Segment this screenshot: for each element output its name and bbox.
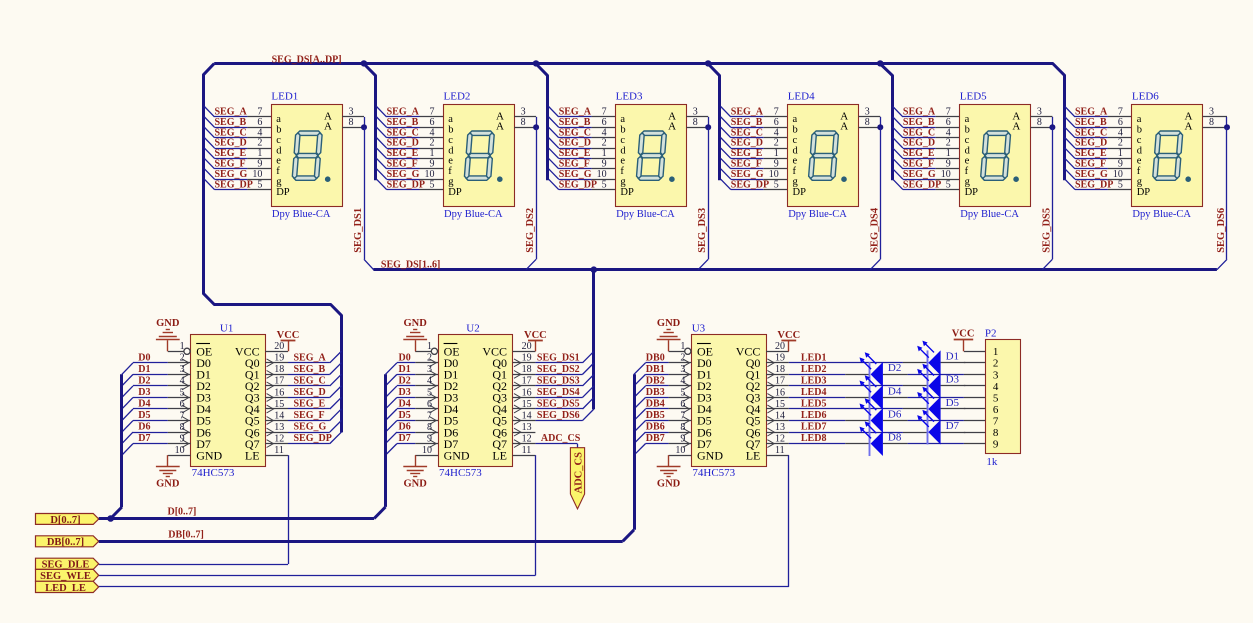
svg-text:10: 10 (597, 169, 607, 180)
svg-text:SEG_DP: SEG_DP (559, 179, 597, 190)
svg-text:LED6: LED6 (1132, 90, 1159, 102)
svg-text:DP: DP (965, 187, 979, 198)
svg-text:LED1: LED1 (271, 90, 298, 102)
svg-text:d: d (448, 145, 454, 156)
svg-text:SEG_F: SEG_F (387, 159, 418, 170)
svg-text:12: 12 (522, 433, 532, 444)
svg-text:GND: GND (657, 479, 681, 490)
svg-text:g: g (1137, 177, 1143, 188)
svg-text:6: 6 (680, 399, 685, 410)
svg-text:5: 5 (680, 387, 685, 398)
svg-text:A: A (1184, 121, 1192, 133)
svg-text:3: 3 (427, 364, 432, 375)
svg-text:SEG_E: SEG_E (903, 148, 935, 159)
svg-text:SEG_DP: SEG_DP (1075, 179, 1113, 190)
svg-text:DP: DP (620, 187, 634, 198)
svg-text:SEG_B: SEG_B (559, 117, 591, 128)
svg-text:SEG_DS5: SEG_DS5 (537, 399, 580, 410)
svg-text:LED4: LED4 (788, 90, 815, 102)
svg-text:LED3: LED3 (801, 376, 827, 387)
svg-text:Dpy Blue-CA: Dpy Blue-CA (788, 209, 847, 220)
svg-text:Dpy Blue-CA: Dpy Blue-CA (1132, 209, 1191, 220)
svg-text:17: 17 (522, 376, 532, 387)
svg-text:D2: D2 (138, 375, 150, 386)
svg-text:4: 4 (180, 376, 185, 387)
svg-text:8: 8 (1037, 117, 1042, 128)
svg-text:4: 4 (993, 381, 999, 393)
svg-text:Dpy Blue-CA: Dpy Blue-CA (960, 209, 1019, 220)
svg-text:11: 11 (522, 445, 532, 456)
svg-text:5: 5 (602, 179, 607, 190)
svg-text:b: b (276, 125, 281, 136)
svg-text:9: 9 (427, 433, 432, 444)
svg-text:DB7: DB7 (646, 433, 665, 444)
svg-text:D5: D5 (946, 397, 960, 409)
svg-text:9: 9 (774, 159, 779, 170)
svg-text:DB6: DB6 (646, 422, 665, 433)
svg-text:GND: GND (156, 479, 180, 490)
svg-text:SEG_F: SEG_F (215, 159, 246, 170)
svg-text:g: g (448, 177, 454, 188)
svg-text:14: 14 (775, 410, 785, 421)
svg-text:LE: LE (746, 448, 761, 462)
svg-text:5: 5 (427, 387, 432, 398)
svg-text:SEG_DS1: SEG_DS1 (537, 352, 580, 363)
svg-text:18: 18 (775, 364, 785, 375)
svg-text:14: 14 (274, 410, 284, 421)
svg-text:D1: D1 (946, 351, 959, 363)
svg-text:5: 5 (430, 179, 435, 190)
svg-text:6: 6 (1118, 117, 1123, 128)
svg-text:e: e (276, 156, 281, 167)
svg-text:1: 1 (1118, 148, 1123, 159)
svg-text:15: 15 (775, 399, 785, 410)
svg-text:2: 2 (993, 358, 999, 370)
svg-text:LED4: LED4 (801, 387, 827, 398)
svg-text:19: 19 (522, 353, 532, 364)
svg-text:SEG_E: SEG_E (731, 148, 763, 159)
svg-text:LED2: LED2 (444, 90, 471, 102)
svg-text:DB[0..7]: DB[0..7] (168, 529, 204, 540)
svg-text:3: 3 (1037, 107, 1042, 118)
svg-text:SEG_G: SEG_G (215, 169, 248, 180)
svg-text:SEG_DS[A..DP]: SEG_DS[A..DP] (272, 55, 342, 66)
svg-text:e: e (965, 156, 970, 167)
svg-text:LED1: LED1 (801, 352, 827, 363)
svg-text:SEG_DS2: SEG_DS2 (537, 364, 580, 375)
svg-text:GND: GND (196, 448, 222, 462)
svg-text:8: 8 (180, 422, 185, 433)
svg-text:7: 7 (602, 107, 607, 118)
svg-text:5: 5 (774, 179, 779, 190)
svg-text:7: 7 (1118, 107, 1123, 118)
svg-text:VCC: VCC (777, 330, 800, 341)
svg-text:d: d (276, 145, 282, 156)
svg-text:b: b (965, 125, 970, 136)
svg-text:GND: GND (657, 318, 681, 329)
svg-text:D6: D6 (888, 408, 902, 420)
svg-text:D7: D7 (946, 420, 960, 432)
svg-text:1: 1 (257, 148, 262, 159)
svg-text:11: 11 (274, 445, 284, 456)
svg-text:SEG_E: SEG_E (387, 148, 419, 159)
svg-text:P2: P2 (985, 328, 997, 340)
svg-text:GND: GND (404, 479, 428, 490)
svg-text:7: 7 (946, 107, 951, 118)
svg-text:D3: D3 (399, 387, 411, 398)
svg-text:SEG_DP: SEG_DP (215, 179, 253, 190)
svg-text:18: 18 (274, 364, 284, 375)
svg-text:3: 3 (680, 364, 685, 375)
svg-text:A: A (324, 121, 332, 133)
svg-text:d: d (965, 145, 971, 156)
svg-text:SEG_E: SEG_E (1075, 148, 1107, 159)
svg-text:14: 14 (522, 410, 532, 421)
svg-text:13: 13 (775, 422, 785, 433)
svg-text:f: f (1137, 166, 1141, 177)
svg-text:8: 8 (1209, 117, 1214, 128)
svg-text:2: 2 (430, 138, 435, 149)
svg-text:SEG_G: SEG_G (294, 422, 327, 433)
svg-text:d: d (620, 145, 626, 156)
svg-text:D4: D4 (888, 385, 902, 397)
svg-text:SEG_D: SEG_D (559, 138, 591, 149)
svg-text:8: 8 (521, 117, 526, 128)
svg-text:VCC: VCC (952, 328, 975, 339)
svg-text:SEG_D: SEG_D (903, 138, 935, 149)
svg-text:3: 3 (180, 364, 185, 375)
svg-text:g: g (965, 177, 971, 188)
svg-text:A: A (1012, 121, 1020, 133)
svg-text:D0: D0 (399, 352, 411, 363)
svg-text:DB0: DB0 (646, 352, 665, 363)
svg-text:SEG_DP: SEG_DP (731, 179, 769, 190)
svg-text:A: A (668, 121, 676, 133)
svg-text:ADC_CS: ADC_CS (573, 452, 584, 494)
svg-text:SEG_B: SEG_B (731, 117, 763, 128)
svg-text:f: f (620, 166, 624, 177)
svg-text:9: 9 (680, 433, 685, 444)
svg-text:SEG_G: SEG_G (1075, 169, 1108, 180)
svg-text:20: 20 (274, 341, 284, 352)
svg-text:SEG_B: SEG_B (903, 117, 935, 128)
svg-text:SEG_A: SEG_A (294, 352, 327, 363)
svg-text:D2: D2 (888, 362, 901, 374)
svg-text:7: 7 (774, 107, 779, 118)
svg-text:D0: D0 (138, 352, 150, 363)
svg-text:SEG_B: SEG_B (387, 117, 419, 128)
svg-text:7: 7 (257, 107, 262, 118)
svg-text:9: 9 (180, 433, 185, 444)
svg-text:SEG_C: SEG_C (294, 376, 326, 387)
svg-text:SEG_DP: SEG_DP (903, 179, 941, 190)
svg-text:DB5: DB5 (646, 410, 665, 421)
svg-text:3: 3 (993, 369, 999, 381)
svg-text:d: d (1137, 145, 1143, 156)
svg-text:74HC573: 74HC573 (692, 467, 735, 479)
svg-text:74HC573: 74HC573 (192, 467, 235, 479)
svg-text:SEG_F: SEG_F (1075, 159, 1106, 170)
svg-text:6: 6 (602, 117, 607, 128)
svg-text:Dpy Blue-CA: Dpy Blue-CA (444, 209, 503, 220)
svg-text:12: 12 (274, 433, 284, 444)
svg-text:5: 5 (1118, 179, 1123, 190)
svg-text:74HC573: 74HC573 (439, 467, 482, 479)
svg-text:VCC: VCC (277, 330, 300, 341)
svg-text:e: e (1137, 156, 1142, 167)
svg-text:SEG_E: SEG_E (215, 148, 247, 159)
svg-text:8: 8 (993, 427, 999, 439)
svg-text:g: g (620, 177, 626, 188)
svg-text:7: 7 (180, 410, 185, 421)
svg-text:8: 8 (349, 117, 354, 128)
svg-text:9: 9 (1118, 159, 1123, 170)
svg-text:10: 10 (252, 169, 262, 180)
svg-text:6: 6 (993, 404, 999, 416)
svg-text:SEG_D: SEG_D (731, 138, 763, 149)
svg-text:a: a (276, 114, 281, 125)
svg-text:DB4: DB4 (646, 399, 665, 410)
svg-text:D[0..7]: D[0..7] (50, 515, 80, 526)
svg-text:LED5: LED5 (801, 399, 827, 410)
svg-text:16: 16 (274, 387, 284, 398)
svg-text:D4: D4 (138, 399, 150, 410)
svg-text:SEG_D: SEG_D (215, 138, 247, 149)
svg-text:SEG_F: SEG_F (294, 410, 325, 421)
svg-text:1: 1 (602, 148, 607, 159)
svg-text:10: 10 (425, 169, 435, 180)
svg-text:DB3: DB3 (646, 387, 665, 398)
svg-text:SEG_B: SEG_B (294, 364, 326, 375)
svg-text:SEG_DS3: SEG_DS3 (537, 376, 580, 387)
svg-text:f: f (965, 166, 969, 177)
svg-text:SEG_DS[1..6]: SEG_DS[1..6] (381, 259, 440, 270)
svg-text:17: 17 (775, 376, 785, 387)
svg-text:DB2: DB2 (646, 375, 665, 386)
svg-text:SEG_F: SEG_F (559, 159, 590, 170)
svg-text:7: 7 (680, 410, 685, 421)
svg-text:3: 3 (349, 107, 354, 118)
svg-text:ADC_CS: ADC_CS (541, 433, 581, 444)
svg-text:2: 2 (680, 353, 685, 364)
svg-text:10: 10 (941, 169, 951, 180)
svg-text:SEG_DS1: SEG_DS1 (353, 208, 364, 253)
svg-text:D5: D5 (399, 410, 411, 421)
svg-text:2: 2 (257, 138, 262, 149)
svg-text:Dpy Blue-CA: Dpy Blue-CA (272, 209, 331, 220)
svg-text:6: 6 (257, 117, 262, 128)
svg-text:U2: U2 (466, 322, 479, 334)
svg-text:19: 19 (274, 353, 284, 364)
svg-text:D7: D7 (399, 433, 411, 444)
svg-text:D8: D8 (888, 431, 902, 443)
svg-text:A: A (840, 121, 848, 133)
svg-text:DP: DP (1137, 187, 1151, 198)
svg-text:15: 15 (274, 399, 284, 410)
svg-text:2: 2 (946, 138, 951, 149)
svg-text:b: b (1137, 125, 1142, 136)
svg-text:3: 3 (521, 107, 526, 118)
svg-text:D3: D3 (946, 374, 960, 386)
svg-text:2: 2 (774, 138, 779, 149)
svg-text:Dpy Blue-CA: Dpy Blue-CA (616, 209, 675, 220)
svg-text:SEG_DS6: SEG_DS6 (1216, 208, 1227, 253)
svg-text:SEG_DP: SEG_DP (294, 433, 332, 444)
svg-text:GND: GND (697, 448, 723, 462)
svg-text:7: 7 (427, 410, 432, 421)
svg-text:1: 1 (946, 148, 951, 159)
svg-text:SEG_A: SEG_A (903, 107, 936, 118)
svg-text:g: g (276, 177, 282, 188)
svg-text:7: 7 (430, 107, 435, 118)
svg-text:a: a (1137, 114, 1142, 125)
svg-text:D1: D1 (399, 364, 411, 375)
svg-text:VCC: VCC (524, 330, 547, 341)
svg-text:10: 10 (422, 445, 432, 456)
svg-text:8: 8 (680, 422, 685, 433)
svg-text:b: b (620, 125, 625, 136)
svg-text:7: 7 (993, 415, 999, 427)
svg-text:SEG_DP: SEG_DP (387, 179, 425, 190)
svg-text:DP: DP (276, 187, 290, 198)
svg-text:f: f (448, 166, 452, 177)
svg-text:LED_LE: LED_LE (45, 583, 86, 594)
svg-text:f: f (276, 166, 280, 177)
svg-text:a: a (793, 114, 798, 125)
svg-text:e: e (448, 156, 453, 167)
svg-text:SEG_D: SEG_D (387, 138, 419, 149)
svg-text:LE: LE (245, 448, 260, 462)
svg-text:10: 10 (175, 445, 185, 456)
svg-text:U1: U1 (220, 322, 233, 334)
svg-text:8: 8 (693, 117, 698, 128)
svg-text:1: 1 (427, 341, 432, 352)
svg-text:SEG_DS4: SEG_DS4 (869, 207, 880, 253)
svg-text:1: 1 (680, 341, 685, 352)
svg-text:20: 20 (522, 341, 532, 352)
svg-text:b: b (793, 125, 798, 136)
svg-text:1k: 1k (986, 456, 998, 468)
svg-text:1: 1 (180, 341, 185, 352)
svg-text:6: 6 (427, 399, 432, 410)
svg-text:9: 9 (602, 159, 607, 170)
svg-text:SEG_G: SEG_G (731, 169, 764, 180)
svg-text:13: 13 (522, 422, 532, 433)
svg-text:a: a (965, 114, 970, 125)
svg-text:d: d (793, 145, 799, 156)
svg-text:SEG_F: SEG_F (903, 159, 934, 170)
svg-text:9: 9 (993, 439, 999, 451)
svg-text:3: 3 (1209, 107, 1214, 118)
svg-text:2: 2 (180, 353, 185, 364)
svg-text:12: 12 (775, 433, 785, 444)
svg-text:6: 6 (430, 117, 435, 128)
svg-text:20: 20 (775, 341, 785, 352)
svg-text:DB[0..7]: DB[0..7] (47, 537, 84, 548)
svg-text:8: 8 (865, 117, 870, 128)
svg-text:SEG_G: SEG_G (903, 169, 936, 180)
svg-text:g: g (793, 177, 799, 188)
svg-text:LED7: LED7 (801, 422, 827, 433)
svg-text:LED8: LED8 (801, 433, 827, 444)
svg-text:SEG_DS5: SEG_DS5 (1041, 208, 1052, 253)
svg-text:GND: GND (404, 318, 428, 329)
svg-text:6: 6 (774, 117, 779, 128)
svg-text:9: 9 (430, 159, 435, 170)
svg-text:GND: GND (156, 318, 180, 329)
svg-text:SEG_WLE: SEG_WLE (40, 571, 91, 582)
svg-text:9: 9 (946, 159, 951, 170)
svg-text:2: 2 (602, 138, 607, 149)
svg-text:e: e (620, 156, 625, 167)
svg-text:SEG_D: SEG_D (294, 387, 326, 398)
svg-text:16: 16 (775, 387, 785, 398)
svg-text:SEG_E: SEG_E (559, 148, 591, 159)
svg-text:SEG_D: SEG_D (1075, 138, 1107, 149)
svg-text:10: 10 (1113, 169, 1123, 180)
svg-text:SEG_DS2: SEG_DS2 (525, 208, 536, 253)
svg-text:D1: D1 (138, 364, 150, 375)
svg-text:5: 5 (946, 179, 951, 190)
svg-text:16: 16 (522, 387, 532, 398)
svg-text:LED6: LED6 (801, 410, 827, 421)
svg-text:17: 17 (274, 376, 284, 387)
svg-text:4: 4 (427, 376, 432, 387)
svg-text:SEG_G: SEG_G (387, 169, 420, 180)
svg-text:1: 1 (774, 148, 779, 159)
svg-text:D4: D4 (399, 399, 411, 410)
svg-text:D6: D6 (399, 422, 411, 433)
svg-text:13: 13 (274, 422, 284, 433)
svg-text:15: 15 (522, 399, 532, 410)
svg-text:SEG_DS6: SEG_DS6 (537, 410, 580, 421)
svg-text:3: 3 (865, 107, 870, 118)
svg-text:a: a (448, 114, 453, 125)
svg-text:A: A (496, 121, 504, 133)
svg-text:b: b (448, 125, 453, 136)
svg-text:f: f (793, 166, 797, 177)
svg-text:SEG_F: SEG_F (731, 159, 762, 170)
svg-text:5: 5 (180, 387, 185, 398)
svg-text:SEG_A: SEG_A (559, 107, 592, 118)
svg-text:SEG_A: SEG_A (1075, 107, 1108, 118)
svg-text:5: 5 (257, 179, 262, 190)
svg-text:LED3: LED3 (616, 90, 643, 102)
svg-text:U3: U3 (692, 322, 706, 334)
svg-text:9: 9 (257, 159, 262, 170)
svg-text:DP: DP (793, 187, 807, 198)
svg-text:D3: D3 (138, 387, 150, 398)
svg-text:1: 1 (993, 346, 999, 358)
svg-text:SEG_DS4: SEG_DS4 (537, 387, 580, 398)
svg-text:DB1: DB1 (646, 364, 665, 375)
svg-text:1: 1 (430, 148, 435, 159)
svg-text:6: 6 (946, 117, 951, 128)
svg-text:6: 6 (180, 399, 185, 410)
svg-text:a: a (620, 114, 625, 125)
svg-text:5: 5 (993, 392, 999, 404)
svg-text:10: 10 (675, 445, 685, 456)
svg-text:SEG_E: SEG_E (294, 399, 326, 410)
svg-text:D6: D6 (138, 422, 150, 433)
svg-text:SEG_A: SEG_A (731, 107, 764, 118)
svg-text:DP: DP (448, 187, 462, 198)
svg-text:19: 19 (775, 353, 785, 364)
svg-text:11: 11 (775, 445, 785, 456)
svg-text:8: 8 (427, 422, 432, 433)
svg-text:SEG_A: SEG_A (387, 107, 420, 118)
svg-text:2: 2 (427, 353, 432, 364)
